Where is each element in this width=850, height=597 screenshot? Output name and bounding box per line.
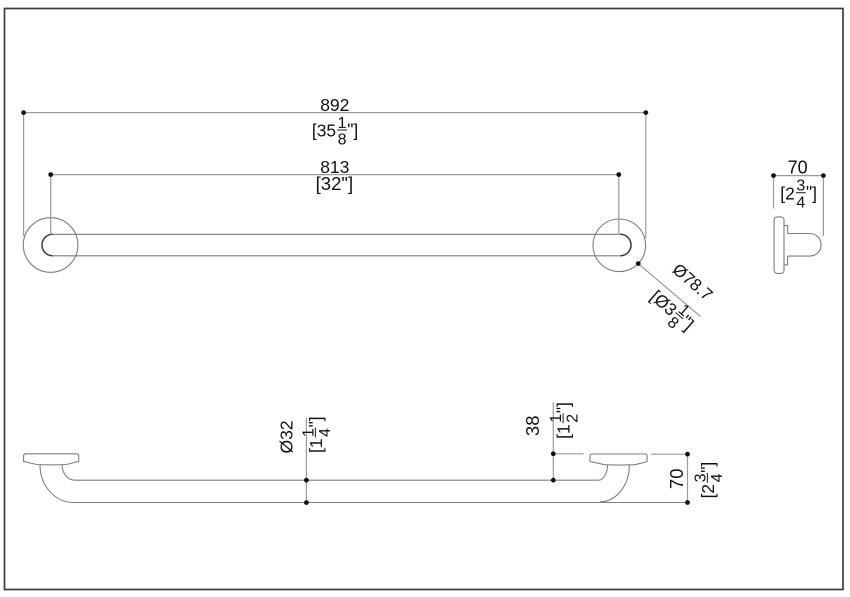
plan view: left elbow	[40, 465, 75, 503]
dimension 70 plan view: extension line from flange edge	[651, 453, 690, 455]
svg-text:2: 2	[565, 414, 582, 423]
svg-text:]: ]	[554, 402, 574, 407]
svg-text:[1: [1	[554, 424, 574, 439]
svg-text:[35: [35	[312, 121, 336, 141]
dimension 813: extension lines	[51, 175, 619, 235]
plan view: right flange plate	[590, 454, 647, 465]
svg-text:[32"]: [32"]	[316, 173, 353, 194]
side view: wall plate	[774, 217, 784, 274]
dimension 70 side view: extension lines	[774, 176, 824, 236]
dimension 38: extension line toward flange	[553, 453, 583, 455]
svg-text:1: 1	[300, 428, 317, 437]
front view: grab bar tube	[53, 234, 621, 256]
dimension 892: end dots	[21, 110, 26, 115]
front view: left flange outer circle	[23, 218, 78, 273]
svg-text:4: 4	[317, 428, 334, 437]
side view: flange neck	[784, 226, 788, 265]
svg-text:4: 4	[709, 473, 726, 482]
dimension O32: dimension line	[305, 418, 307, 503]
front view: bar left end cap	[42, 234, 53, 256]
dimension 892: extension lines	[24, 113, 646, 238]
svg-text:Ø32: Ø32	[277, 420, 297, 453]
svg-text:[2: [2	[698, 484, 718, 499]
dimension 38: dimension line	[552, 402, 554, 480]
front view: bar right end cap	[620, 234, 631, 256]
text [O3 1/8 inch] rotated leader label	[641, 282, 701, 340]
svg-text:38: 38	[522, 416, 543, 437]
text [1 1/4 inch] rotated	[300, 416, 334, 453]
plan view: left flange plate	[24, 454, 79, 465]
svg-text:]: ]	[353, 121, 358, 141]
svg-text:3: 3	[692, 473, 709, 482]
svg-text:1: 1	[338, 115, 347, 132]
plan view: bar top line	[75, 479, 599, 481]
dimension 70 side view: dimension line	[774, 175, 824, 177]
leader line for flange diameter callout	[638, 264, 700, 317]
front view: right flange outer circle	[593, 219, 646, 272]
dimension 813: dimension line	[51, 174, 619, 176]
svg-text:8: 8	[338, 132, 347, 149]
svg-text:892: 892	[320, 95, 349, 115]
dimension 70 plan view: dimension line	[687, 454, 689, 502]
svg-text:]: ]	[698, 462, 718, 467]
svg-text:4: 4	[796, 194, 805, 211]
text [2 3/4 inch] plan view rotated	[692, 462, 726, 499]
dimension 813: end dots	[48, 172, 53, 177]
svg-text:[2: [2	[780, 183, 795, 203]
plan view: right elbow	[598, 465, 629, 502]
svg-text:]: ]	[306, 416, 326, 421]
svg-text:70: 70	[788, 158, 808, 178]
side view: bar stub	[788, 234, 822, 257]
svg-text:1: 1	[548, 414, 565, 423]
dimension 892: dimension line	[24, 112, 646, 114]
plan view: bar bottom line	[73, 502, 687, 504]
text [1 1/2 inch] rotated	[548, 402, 582, 439]
svg-text:]: ]	[812, 183, 817, 203]
svg-text:[1: [1	[306, 438, 326, 453]
svg-text:70: 70	[666, 469, 687, 490]
svg-text:3: 3	[796, 178, 805, 195]
